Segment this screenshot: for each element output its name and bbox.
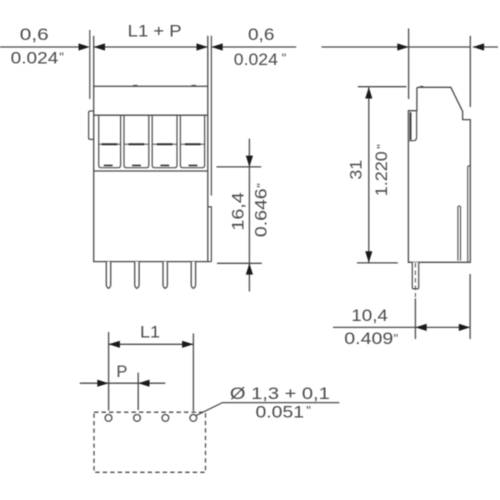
slot 2 bottom tick [132,165,141,167]
dim L1 right extension [192,333,194,411]
side pin dashed centerline [414,263,416,297]
side top bump [420,86,423,87]
arrowhead P left [97,380,108,387]
svg-text:": " [282,50,287,65]
svg-text:1.220: 1.220 [373,151,391,196]
side top dim tail right [473,46,498,48]
dim 31 vertical line [368,87,370,262]
svg-text:16,4: 16,4 [230,192,248,230]
svg-text:0,6: 0,6 [20,26,49,44]
svg-text:": " [59,50,64,65]
dim L1 line [109,343,194,345]
side inner wall line [468,166,470,262]
svg-text:0.409: 0.409 [344,330,393,348]
pin 1 front [106,262,110,289]
arrowhead 10,4 left [415,324,426,331]
slot 3 bottom tick [160,165,169,167]
side flange shade line [410,112,412,140]
side top ext line left [408,28,410,99]
dim 10,4 line [333,326,470,328]
svg-text:0,6: 0,6 [248,26,274,44]
arrowhead 10,4 right [459,324,470,331]
leader line to hole 4 [196,403,339,416]
slot 2 [124,115,149,168]
dim 31 top extension [358,86,407,88]
front left flange tab [89,111,94,139]
side pin [412,262,418,289]
front housing body [94,86,208,261]
svg-text:31: 31 [348,160,366,180]
arrowhead 31 up [365,87,372,98]
arrowhead L1+P right [197,43,208,50]
side view outline [408,87,470,262]
arrowhead 0,6 right [211,43,222,50]
extension line left outer [89,30,91,99]
arrowhead side top left [397,43,408,50]
right outer lower jog [208,207,212,262]
slot 4 bottom tick [189,165,198,167]
hole 1 [105,415,112,422]
svg-text:": " [254,183,269,188]
side actuator slot [458,206,461,261]
slot 1 clamp line [99,143,120,145]
top bump at pin4 [192,85,197,86]
svg-text:0.024: 0.024 [234,51,278,69]
arrowhead 16,4 top [246,156,253,167]
arrowhead side top right [473,43,484,50]
svg-text:0.051: 0.051 [256,404,305,422]
extension line left housing edge [93,36,95,87]
slot 1 clamp bar [102,143,118,145]
arrowhead 16,4 bottom [246,263,253,274]
front housing lower shelf line [94,170,208,172]
pin 4 front [191,262,195,289]
dim P line right tail [138,382,165,384]
svg-text:Ø 1,3 + 0,1: Ø 1,3 + 0,1 [230,385,330,403]
arrowhead 0,6 left [79,43,90,50]
extension line right housing edge [207,36,209,87]
right outer foot [208,261,212,263]
arrowhead 31 down [365,251,372,262]
slot 1 bottom tick [104,165,113,167]
arrowhead L1 left [109,341,120,348]
side top dim line [322,46,471,48]
pin 3 front [163,262,167,289]
dim 10,4 left extension [414,298,416,339]
dim P extension [137,373,139,410]
dim 31 bottom extension [357,262,398,264]
svg-text:10,4: 10,4 [351,307,388,325]
side flange inner edge [409,112,416,141]
svg-text:0.024: 0.024 [11,50,59,68]
arrowhead L1 right [182,341,193,348]
dim line 0,6 left [0,46,87,48]
extension line right outer upper [210,36,212,196]
hole 2 [134,415,141,422]
dim L1 left extension [108,332,110,411]
front housing slot-area top line [94,114,208,116]
slot 4 clamp bar [185,143,201,145]
hole 3 [162,415,169,422]
dim line 0,6 right [211,46,296,48]
slot 4 [180,115,204,168]
dim 10,4 right extension [469,274,471,339]
side top ext line right [469,36,471,107]
dim P line left tail [80,382,109,384]
arrowhead P right [138,380,149,387]
dim line L1+P [94,46,208,48]
svg-text:L1: L1 [140,324,160,342]
svg-text:": " [306,403,311,418]
footprint dashed outline [94,412,206,472]
svg-text:": " [394,331,399,346]
slot 2 clamp line [125,143,149,145]
dim 16,4 bottom extension line [217,262,262,264]
hole 4 [190,415,197,422]
slot 3 clamp line [153,143,177,145]
pin 2 front [135,262,139,289]
svg-text:0.646: 0.646 [252,188,270,237]
top bump at pin2 [133,85,138,86]
dim 16,4 vertical line [248,139,250,292]
slot 2 clamp bar [129,143,145,145]
slot 3 clamp bar [157,143,173,145]
dim 16,4 top extension line [216,166,261,168]
slot 3 [152,115,177,168]
arrowhead L1+P left [94,43,105,50]
dim P line middle [109,382,139,384]
slot 1 [99,115,121,168]
slot 4 clamp line [181,143,204,145]
svg-text:L1 + P: L1 + P [128,22,182,40]
svg-text:P: P [116,363,127,381]
svg-text:": " [374,144,389,149]
